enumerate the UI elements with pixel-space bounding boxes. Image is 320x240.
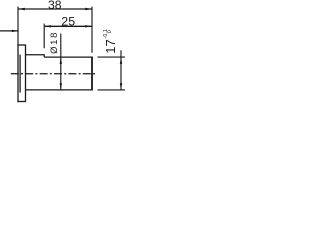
dimension 38: dimension line <box>18 8 92 10</box>
dimension 25: right arrowhead <box>85 25 92 27</box>
part outline: mid section top edge <box>26 54 45 56</box>
dimension 25: left arrowhead <box>44 25 51 27</box>
cropped dimension: right arrowhead <box>12 30 19 32</box>
svg-text:-0.1: -0.1 <box>103 29 109 38</box>
part outline: body bottom edge <box>26 89 93 91</box>
part outline: right end face <box>91 57 93 91</box>
dia18 dimension line (vertical) <box>60 34 62 90</box>
part outline: flange right face <box>25 44 27 102</box>
dia18: top arrowhead pointing up <box>60 57 62 64</box>
dimension 25: dimension line <box>44 25 92 27</box>
cropped dimension line exiting left edge <box>0 30 19 32</box>
background <box>0 0 125 105</box>
dimension 17: top arrowhead pointing up <box>120 57 122 64</box>
extension line left (x=18.4) <box>17 7 19 45</box>
dimension 17: bottom arrowhead pointing down <box>120 83 122 90</box>
dimension 38: right arrowhead <box>85 8 92 10</box>
dimension 38: left arrowhead <box>18 8 25 10</box>
dimension 17: dimension line (vertical) <box>120 50 122 90</box>
center line (dash-dot) <box>11 73 96 75</box>
svg-text:17: 17 <box>103 39 118 53</box>
dimension 17: bottom extension line <box>98 89 126 91</box>
inner silhouette line on flange face <box>19 55 21 93</box>
dimension 17: top extension line <box>98 56 126 58</box>
extension line right (x=92) <box>91 7 93 53</box>
part outline: left end face <box>17 44 19 102</box>
dimension 17: rotated text label with tolerance <box>103 29 118 54</box>
svg-text:38: 38 <box>48 0 62 12</box>
extension line for 25 (x=44.2) <box>43 24 45 49</box>
part outline: flange top edge <box>17 44 25 46</box>
part outline: flange bottom edge <box>17 101 25 103</box>
svg-text:25: 25 <box>61 15 75 29</box>
svg-text:Ø18: Ø18 <box>49 31 60 54</box>
dia18: bottom arrowhead pointing down <box>60 83 62 90</box>
part outline: step face <box>43 54 45 57</box>
part outline: right section top edge <box>44 56 92 58</box>
